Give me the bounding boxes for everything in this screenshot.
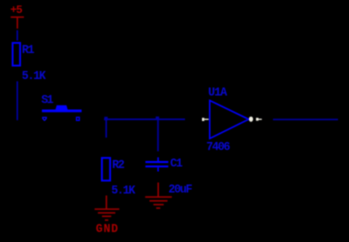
svg-text:+5: +5 (10, 5, 23, 17)
svg-text:GND: GND (96, 223, 119, 236)
svg-text:5.1K: 5.1K (22, 70, 46, 83)
svg-text:5.1K: 5.1K (111, 184, 135, 197)
svg-text:R2: R2 (112, 159, 125, 172)
svg-text:7406: 7406 (206, 141, 230, 154)
svg-text:S1: S1 (41, 94, 54, 107)
svg-text:U1A: U1A (208, 87, 227, 100)
svg-text:C1: C1 (170, 158, 183, 171)
svg-text:20uF: 20uF (168, 184, 192, 197)
svg-text:R1: R1 (22, 44, 35, 57)
